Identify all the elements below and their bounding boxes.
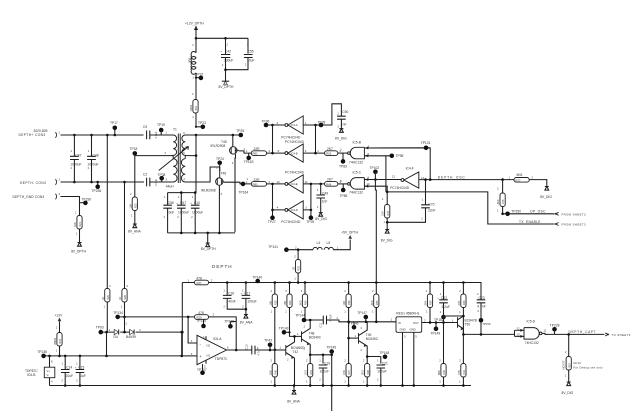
svg-text:TP18: TP18: [130, 147, 138, 151]
svg-text:C22: C22: [441, 296, 447, 300]
svg-text:R41: R41: [463, 370, 466, 375]
svg-text:R81: R81: [195, 106, 198, 111]
svg-text:TX_ENABLE: TX_ENABLE: [519, 220, 541, 224]
svg-text:N1: N1: [207, 353, 211, 357]
svg-text:C17: C17: [244, 291, 250, 295]
svg-text:C2: C2: [143, 173, 147, 177]
transistor T45 IRLR2908: [211, 135, 246, 232]
power flag 8V_ANA (left): [128, 224, 141, 233]
svg-text:IC4-A: IC4-A: [291, 123, 298, 127]
wire T1 pin6 line to TP25: [188, 134, 241, 137]
svg-text:PC74HC04D: PC74HC04D: [281, 220, 301, 224]
svg-text:TP98: TP98: [396, 154, 404, 158]
svg-text:8V_DPTH: 8V_DPTH: [219, 85, 234, 89]
svg-text:TP17: TP17: [110, 121, 118, 125]
capacitor C23 4.7nF: [477, 292, 486, 334]
resistor R82 22R: [239, 147, 285, 156]
svg-text:C13: C13: [244, 344, 248, 350]
power flag +12V_DPTH: [185, 22, 204, 39]
wire op-amp output: [227, 345, 252, 351]
test point TP28: [318, 120, 326, 127]
svg-text:IC5-C: IC5-C: [353, 171, 362, 175]
svg-text:No Fit: No Fit: [573, 361, 581, 365]
svg-text:8V_DIG: 8V_DIG: [315, 217, 327, 221]
svg-text:R34: R34: [305, 300, 308, 305]
svg-text:C56: C56: [168, 201, 174, 205]
svg-text:R78: R78: [387, 211, 390, 216]
svg-text:TP149: TP149: [431, 331, 441, 335]
svg-text:TP136: TP136: [37, 350, 47, 354]
svg-text:DEPTH: DEPTH: [212, 264, 233, 269]
svg-text:IRLR2908: IRLR2908: [201, 189, 216, 193]
capacitor C16 40nF: [223, 281, 246, 309]
test point TP236: [92, 182, 102, 193]
wire T48 emitter junction: [309, 354, 333, 357]
wire R36 column to T49 base: [347, 321, 358, 340]
svg-text:T1: T1: [173, 128, 177, 132]
svg-text:R32: R32: [298, 266, 301, 271]
svg-text:C50: C50: [342, 110, 348, 114]
wire IC5-C pin9 bus to IC4-F output: [364, 178, 401, 181]
svg-text:TP164: TP164: [239, 190, 249, 194]
resistor R25 1K: [101, 135, 112, 332]
wire IC4-A output to TP26: [266, 124, 285, 127]
test point TP148: [380, 351, 390, 359]
wire DP_OSC: [501, 213, 554, 216]
op-amp IC6-A TDP87C: [197, 335, 228, 364]
svg-text:40nF: 40nF: [228, 300, 236, 304]
svg-text:R82: R82: [253, 152, 259, 156]
svg-text:IC6-B: IC6-B: [27, 373, 36, 377]
capacitor C9 4.7uF (series): [143, 125, 171, 139]
capacitor C14 10uF: [61, 356, 73, 387]
svg-text:10uF: 10uF: [66, 374, 74, 378]
wire bottom rail: [50, 385, 472, 387]
svg-text:R64: R64: [326, 182, 332, 186]
svg-text:FROM SHEET3: FROM SHEET3: [562, 212, 587, 216]
svg-text:TO SHEET3: TO SHEET3: [612, 333, 631, 337]
node at 196,38.3: [195, 37, 227, 40]
svg-text:10K: 10K: [73, 222, 77, 227]
svg-text:10K: 10K: [128, 203, 132, 208]
svg-text:56K: 56K: [437, 370, 441, 375]
transistor T46 IRLR2908: [188, 167, 249, 232]
svg-text:C57: C57: [180, 201, 186, 205]
capacitor C22 2.2uF: [437, 283, 450, 323]
resistor R81 100R: [189, 92, 198, 127]
wire TX_ENABLE bus: [386, 191, 555, 224]
wire diode center tap: [125, 317, 128, 332]
opamp power block IC6-B: [25, 356, 55, 386]
svg-text:DEPTH_GND CON3: DEPTH_GND CON3: [13, 195, 45, 199]
test point TP27: [268, 215, 276, 224]
svg-text:PC74HC04D: PC74HC04D: [281, 135, 301, 139]
svg-text:3020-805: 3020-805: [34, 129, 48, 133]
capacitor C47 1000uF: [70, 135, 82, 182]
resistor R21 10K: [73, 211, 82, 243]
svg-text:1000uF: 1000uF: [87, 162, 98, 166]
transistor T49 BC849C: [359, 322, 379, 357]
svg-text:TP228: TP228: [550, 323, 560, 327]
wire T50 emitter line to IC5-D: [462, 333, 514, 336]
test point TP137: [197, 364, 207, 375]
svg-text:TP25: TP25: [236, 129, 244, 133]
svg-text:8V_ANA: 8V_ANA: [287, 399, 300, 403]
node dots on DEPTH+: [73, 134, 109, 137]
transformer T1: [159, 128, 189, 189]
svg-text:TDP87C: TDP87C: [215, 357, 228, 361]
diode D4: [114, 330, 119, 340]
node IN line: [365, 308, 378, 324]
svg-text:R77: R77: [516, 178, 522, 182]
svg-text:GND: GND: [410, 328, 416, 332]
svg-text:1R: 1R: [292, 267, 296, 271]
svg-text:12: 12: [517, 326, 521, 330]
svg-text:TP135: TP135: [196, 319, 206, 323]
power flag +5V_DPTH: [341, 230, 358, 238]
svg-text:TP250: TP250: [511, 210, 521, 214]
capacitor C56 10uF: [163, 195, 174, 233]
wire OUT line: [422, 318, 456, 324]
inverter IC4-E: [277, 171, 309, 193]
resistor R27 47K: [195, 277, 228, 285]
svg-text:TP93: TP93: [96, 326, 104, 330]
svg-text:74HC132: 74HC132: [349, 160, 363, 164]
svg-text:DEPTH_OSC: DEPTH_OSC: [438, 176, 466, 180]
capacitor C19 100uF: [319, 355, 331, 387]
resistor R36 10K: [342, 283, 351, 339]
svg-text:TP22: TP22: [196, 72, 204, 76]
svg-text:3K3: 3K3: [496, 199, 500, 204]
power flag 8V_DIG (C49): [315, 213, 327, 221]
svg-text:R28: R28: [274, 300, 277, 305]
svg-text:TP152: TP152: [434, 318, 444, 322]
svg-text:TP83: TP83: [339, 165, 347, 169]
test point TP152: [434, 312, 446, 323]
svg-text:IRLR2908: IRLR2908: [211, 144, 226, 148]
test point TP163: [244, 153, 254, 164]
svg-text:13: 13: [517, 332, 521, 336]
resistor R83 22R: [224, 178, 285, 187]
svg-text:8V_ANA: 8V_ANA: [128, 229, 141, 233]
capacitor C10 1000uF: [190, 193, 203, 233]
svg-text:R63: R63: [326, 152, 332, 156]
svg-text:IC4-B: IC4-B: [291, 151, 298, 155]
svg-text:TP141: TP141: [268, 245, 278, 249]
svg-text:10K: 10K: [342, 300, 346, 305]
svg-text:11: 11: [305, 180, 308, 184]
svg-text:TP24: TP24: [216, 157, 224, 161]
test point TP143: [279, 327, 290, 335]
svg-text:R24: R24: [59, 339, 62, 344]
svg-text:PC74HC04D: PC74HC04D: [390, 186, 410, 190]
test point TP138: [225, 319, 237, 328]
capacitor C21 100uF: [377, 357, 389, 387]
svg-text:TP29: TP29: [306, 220, 314, 224]
wire IC5-B pin4 to TP131 / DEPTH_OSC: [364, 148, 430, 180]
svg-text:IC6-A: IC6-A: [213, 337, 222, 341]
svg-text:IC4-E: IC4-E: [291, 182, 298, 186]
wire op-amp signal to T42 base: [270, 346, 286, 350]
svg-text:8V_DPTH: 8V_DPTH: [71, 249, 86, 253]
power flag 8V_DIG (R67): [562, 382, 574, 395]
inverter IC4-B: [278, 140, 307, 162]
svg-text:+12V: +12V: [55, 314, 64, 318]
svg-text:C47: C47: [75, 154, 81, 158]
inductor L5: [324, 240, 350, 250]
resistor R38 2K2: [361, 357, 370, 387]
capacitor C15 1uF: [75, 356, 86, 387]
svg-text:1000uF: 1000uF: [178, 210, 189, 214]
wire DEPTH_GND: [61, 197, 80, 216]
svg-text:R83: R83: [253, 182, 259, 186]
capacitor C48 1000uF: [87, 135, 99, 182]
arrow TO SHEET3: [605, 333, 631, 337]
test point TP98: [390, 154, 404, 159]
test point TP17: [110, 121, 118, 136]
resistor R29 47K: [195, 311, 237, 350]
test point TP24: [216, 157, 224, 171]
nand IC5-C 74HC132: [340, 171, 370, 195]
svg-text:D4: D4: [114, 335, 118, 339]
svg-text:C16: C16: [228, 291, 234, 295]
svg-text:IC4-D: IC4-D: [291, 208, 298, 212]
connector CON3 labels: [13, 129, 61, 200]
wire +12V node to C42/C55: [196, 38, 248, 53]
resistor R64 2K7: [325, 178, 348, 187]
test point TP141: [268, 245, 288, 252]
svg-text:3K3: 3K3: [370, 300, 374, 305]
test point TP140: [253, 275, 263, 283]
svg-text:DP_OSC: DP_OSC: [530, 210, 546, 214]
svg-text:R43: R43: [463, 300, 466, 305]
svg-text:1000uF: 1000uF: [192, 210, 203, 214]
svg-text:TP19: TP19: [157, 123, 165, 127]
svg-text:10K: 10K: [381, 211, 385, 216]
arrow FROM SHEET3 (DP_OSC): [556, 212, 587, 216]
node dots on DEPTH-: [73, 181, 126, 184]
power flag 8V_DIG (R78): [381, 230, 393, 243]
inductor L4: [313, 241, 322, 250]
svg-text:NO FIT: NO FIT: [562, 360, 566, 369]
svg-text:2K7: 2K7: [327, 178, 333, 182]
svg-text:R21: R21: [79, 222, 82, 227]
power flag 8V_DPTH (left): [71, 243, 86, 254]
svg-text:10K: 10K: [268, 300, 272, 305]
resistor R24 680R: [53, 333, 62, 356]
test point TP144: [295, 313, 306, 322]
arrow FROM SHEET3 (TX_ENABLE): [556, 223, 587, 227]
svg-text:10: 10: [277, 180, 281, 184]
resistor R28 10K: [268, 283, 277, 350]
svg-text:OUT: OUT: [413, 321, 419, 325]
wire cap bank top bus: [168, 191, 197, 205]
svg-text:2K7: 2K7: [327, 147, 333, 151]
resistor R77 6K8: [509, 173, 547, 187]
resistor R31 1K2: [304, 355, 313, 387]
svg-text:T46: T46: [221, 172, 227, 176]
svg-text:12: 12: [392, 175, 396, 179]
svg-text:R67: R67: [568, 363, 571, 368]
power flag 8V_DPTH (top): [219, 81, 234, 89]
wire bus down to depth rail: [374, 180, 377, 283]
svg-text:22K: 22K: [268, 370, 272, 375]
svg-text:C11: C11: [319, 322, 323, 327]
resistor R32 1R: [292, 250, 301, 283]
capacitor C42 330uF: [220, 38, 233, 81]
test point TP131: [421, 141, 431, 150]
test point TP134: [113, 311, 123, 319]
svg-text:RES1 4580KHz: RES1 4580KHz: [396, 312, 419, 316]
svg-text:L4: L4: [317, 241, 321, 245]
svg-text:R36: R36: [348, 300, 351, 305]
wire DEPTH_OSC net: [419, 176, 511, 181]
capacitor C49 1nF: [316, 184, 328, 213]
svg-text:TP148: TP148: [380, 351, 390, 355]
svg-text:R39: R39: [430, 300, 433, 305]
svg-text:DEPTH- CON3: DEPTH- CON3: [20, 181, 46, 185]
svg-text:8V_ANA: 8V_ANA: [240, 321, 253, 325]
wire R64 node down to IC4-D input: [303, 184, 312, 211]
svg-text:TP140: TP140: [253, 275, 263, 279]
svg-text:100R: 100R: [189, 105, 193, 112]
svg-text:3K3: 3K3: [299, 300, 303, 305]
resistor R26 1K: [118, 182, 129, 317]
resistor R20 10K: [128, 192, 137, 224]
test point TP146: [349, 322, 359, 330]
svg-text:TP27: TP27: [268, 220, 276, 224]
svg-text:T42: T42: [293, 350, 299, 354]
svg-text:2K2: 2K2: [361, 370, 365, 375]
test point TP93: [96, 326, 104, 335]
power flag +12V: [55, 314, 64, 333]
test point TP18: [130, 147, 138, 156]
nand IC5-D 74HC132: [515, 319, 547, 345]
test point TP42: [264, 338, 272, 351]
resonator RES1 4580KHz: [396, 312, 422, 387]
transistor T42 BCW60D: [286, 336, 305, 385]
transistor T50 BC847B: [452, 316, 478, 334]
svg-text:TP42: TP42: [264, 338, 272, 342]
svg-text:+5V_DPTH: +5V_DPTH: [341, 230, 358, 234]
wire +12V down to L3: [192, 38, 196, 52]
capacitor C2 4.7uF (series): [143, 173, 171, 187]
svg-text:8V_DIG: 8V_DIG: [562, 391, 574, 395]
wire T49 emitter junction: [366, 355, 381, 358]
nand IC5-B 74HC132: [340, 140, 370, 164]
svg-text:V-: V-: [47, 373, 50, 377]
svg-text:C55: C55: [248, 50, 254, 54]
svg-text:TP143: TP143: [279, 327, 289, 331]
svg-text:6K8: 6K8: [517, 173, 523, 177]
svg-text:GND: GND: [400, 328, 406, 332]
wire IC5-C pin10 to TX_ENABLE bus: [364, 186, 387, 192]
diode BAV99: [126, 330, 136, 340]
svg-text:R20: R20: [134, 203, 137, 208]
svg-text:R33: R33: [289, 300, 292, 305]
svg-text:74HC132: 74HC132: [525, 341, 539, 345]
power flag 8V_DIG (R77): [540, 187, 552, 199]
test point TP228: [550, 323, 560, 334]
test point TP102: [370, 166, 380, 179]
test point TP230: [80, 198, 92, 206]
wire TP134 line to R29: [118, 316, 195, 319]
svg-text:1K2: 1K2: [304, 370, 308, 375]
svg-text:TP102: TP102: [370, 166, 380, 170]
svg-text:TP131: TP131: [421, 141, 431, 145]
svg-text:100uF: 100uF: [247, 300, 256, 304]
test point TP19: [157, 123, 165, 135]
wire IC5-B pin5 to TP98 / TX_ENABLE: [364, 156, 391, 192]
test point TP150: [479, 318, 491, 326]
svg-text:T50: T50: [465, 322, 471, 326]
wire TP136 bias line: [44, 355, 182, 358]
svg-text:IC5-D: IC5-D: [527, 319, 536, 323]
svg-text:TP23: TP23: [198, 121, 206, 125]
inverter IC4-D: [277, 201, 304, 224]
power flag 8V_DIG (C50): [335, 129, 347, 141]
svg-text:BC849C: BC849C: [366, 337, 379, 341]
svg-text:TP230: TP230: [82, 198, 92, 202]
svg-text:C48: C48: [93, 154, 99, 158]
test point TP22: [192, 72, 204, 95]
svg-text:1nF: 1nF: [322, 199, 328, 203]
svg-text:74HC132: 74HC132: [349, 190, 363, 194]
power flag 8V_ANA (bottom rail): [287, 384, 300, 403]
svg-text:1uF: 1uF: [80, 374, 86, 378]
capacitor C11 4.7uF (series): [319, 314, 396, 327]
svg-text:L5: L5: [327, 241, 331, 245]
svg-text:47K: 47K: [457, 300, 461, 305]
wire IC4-A input to C50: [303, 104, 341, 126]
svg-text:1K: 1K: [101, 296, 105, 300]
test point TP25: [236, 129, 244, 137]
svg-text:3R9: 3R9: [188, 57, 192, 63]
svg-text:TP134: TP134: [113, 311, 123, 315]
svg-text:R25: R25: [107, 295, 110, 300]
svg-text:BAV99: BAV99: [126, 335, 136, 339]
svg-text:8V_DIG: 8V_DIG: [381, 238, 393, 242]
svg-text:DEPTH+ CON3: DEPTH+ CON3: [19, 133, 46, 137]
svg-text:IC4-F: IC4-F: [406, 167, 414, 171]
svg-text:8V_DPTH: 8V_DPTH: [201, 247, 216, 251]
label DEPTH: [212, 264, 233, 269]
svg-text:47K: 47K: [342, 370, 346, 375]
svg-text:15K: 15K: [283, 300, 287, 305]
svg-text:TP138: TP138: [225, 319, 235, 323]
svg-text:44uH: 44uH: [166, 185, 175, 189]
svg-text:T45: T45: [221, 140, 227, 144]
svg-text:2.2uF: 2.2uF: [442, 305, 450, 309]
svg-text:TP144: TP144: [295, 313, 305, 317]
resistor R41 47K: [457, 334, 466, 386]
transistor T48 BC849C: [302, 320, 322, 355]
wire TP18 to T1 pin2: [135, 151, 171, 197]
svg-text:TP145: TP145: [327, 345, 337, 349]
svg-text:DEPTH_CAPT: DEPTH_CAPT: [569, 330, 597, 334]
inductor L3: [188, 52, 197, 75]
svg-text:PC74HC04D: PC74HC04D: [285, 140, 305, 144]
wire IC4-B input / R63 node: [303, 125, 324, 154]
wire center column pin5 to cap bus: [188, 135, 198, 193]
test point TP29: [306, 210, 314, 224]
svg-text:100uF: 100uF: [377, 370, 386, 374]
capacitor C13 4.7uF (series output): [244, 344, 285, 356]
label TX_ENABLE: [519, 220, 541, 224]
wire R27 left column: [181, 278, 195, 356]
test point TP23: [195, 121, 206, 129]
svg-text:1000uF: 1000uF: [70, 162, 81, 166]
